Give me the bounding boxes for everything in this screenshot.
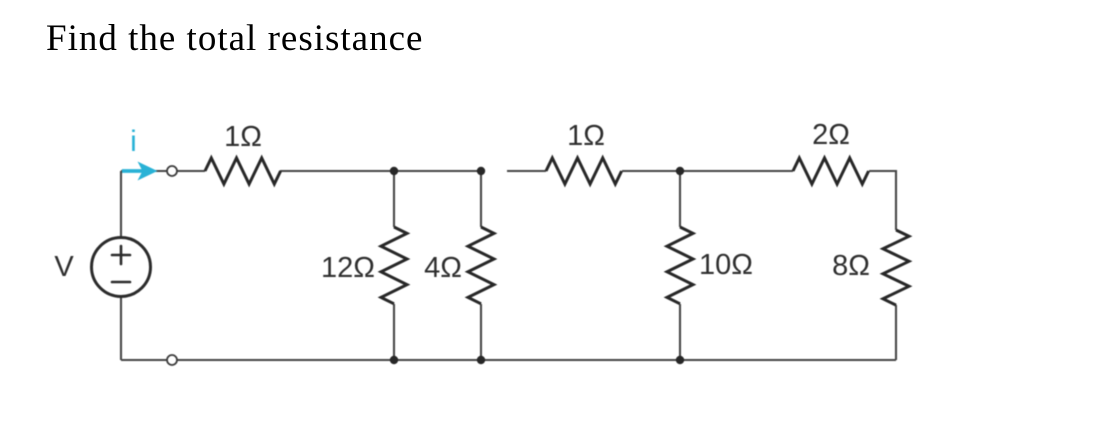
wire top-left horizontal <box>121 170 205 172</box>
voltage source V (circle with plus minus) <box>92 238 151 297</box>
wire left rail upper <box>120 171 122 239</box>
junction dot node C top <box>477 167 485 175</box>
junction dot node D bottom <box>676 356 684 364</box>
wire 4-ohm bottom lead <box>480 304 482 360</box>
resistor 12-ohm (vertical zigzag) <box>381 227 407 304</box>
resistor 8-ohm (vertical zigzag) <box>883 230 909 305</box>
wire bottom rail <box>121 359 896 361</box>
svg-text:4Ω: 4Ω <box>424 252 462 284</box>
svg-text:8Ω: 8Ω <box>832 250 870 282</box>
wire 10-ohm top lead <box>679 171 681 227</box>
svg-text:12Ω: 12Ω <box>321 252 375 284</box>
resistor 1-ohm middle (horizontal zigzag) <box>546 158 622 184</box>
resistor 2-ohm (horizontal zigzag) <box>793 158 869 184</box>
resistor 4-ohm (vertical zigzag) <box>468 227 494 304</box>
svg-text:10Ω: 10Ω <box>699 249 753 281</box>
current arrow i <box>122 162 158 181</box>
wire top: R2 to 2-ohm resistor <box>622 170 793 172</box>
wire top-right corner <box>869 171 896 230</box>
svg-text:i: i <box>130 125 137 158</box>
wire right rail lower <box>895 305 897 360</box>
svg-text:V: V <box>54 251 74 283</box>
wire 12-ohm top lead <box>393 171 395 227</box>
node terminal top (open circle) <box>167 166 177 176</box>
wire 4-ohm top lead <box>480 171 482 227</box>
svg-text:2Ω: 2Ω <box>812 119 850 151</box>
wire 12-ohm bottom lead <box>393 304 395 360</box>
junction dot node B top <box>390 167 398 175</box>
junction dot node D top <box>676 167 684 175</box>
resistor 1-ohm left (horizontal zigzag) <box>205 158 281 184</box>
junction dot node C bottom <box>477 356 485 364</box>
title text <box>46 17 423 60</box>
node terminal bottom (open circle) <box>167 355 177 365</box>
wire left rail lower <box>120 295 122 360</box>
svg-text:1Ω: 1Ω <box>567 120 605 152</box>
resistor 10-ohm (vertical zigzag) <box>667 227 693 304</box>
junction dot node B bottom <box>390 356 398 364</box>
wire top: R1 to node B <box>280 170 484 172</box>
wire top short segment after gap <box>507 170 546 172</box>
svg-text:1Ω: 1Ω <box>224 121 262 153</box>
wire 10-ohm bottom lead <box>679 304 681 360</box>
